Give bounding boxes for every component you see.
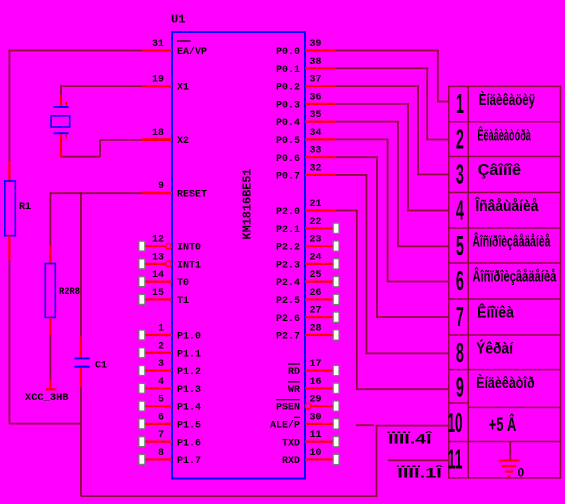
- pin 12 INT0 (left): [139, 235, 201, 254]
- svg-text:Èíäèêàòîð: Èíäèêàòîð: [476, 373, 535, 392]
- svg-text:38: 38: [310, 57, 322, 68]
- svg-text:P2.1: P2.1: [276, 225, 300, 236]
- pin 29 PSEN (right): [276, 395, 339, 414]
- svg-text:35: 35: [310, 110, 322, 121]
- table row 6 label text: [472, 267, 556, 286]
- svg-text:9: 9: [158, 181, 164, 192]
- resistor R1: [5, 181, 16, 236]
- wire into table row 11 (ground net): [388, 459, 449, 461]
- table row 2 number: [456, 124, 464, 155]
- label R2R8: [59, 287, 80, 298]
- pin 26 P2.5 (right): [276, 288, 339, 307]
- svg-text:21: 21: [310, 199, 322, 210]
- svg-text:EA/VP: EA/VP: [177, 46, 207, 58]
- svg-text:9: 9: [456, 371, 464, 402]
- svg-text:ALE/P: ALE/P: [270, 419, 300, 431]
- svg-text:25: 25: [310, 270, 322, 281]
- pin 3 P1.2 (left): [139, 359, 201, 378]
- svg-text:11: 11: [448, 443, 463, 474]
- pin 2 P1.1 (left): [139, 341, 201, 360]
- svg-text:8: 8: [456, 337, 464, 368]
- svg-text:P2.7: P2.7: [276, 332, 300, 343]
- wire R2 rail below R2 to VCC bar: [49, 317, 51, 388]
- svg-text:5: 5: [158, 395, 164, 406]
- table row 11 number: [448, 443, 463, 474]
- svg-text:10: 10: [448, 407, 463, 438]
- pin 39 P0.0 (right): [276, 39, 336, 58]
- wire left rail above R1: [8, 50, 10, 181]
- wire R2 rail above R2: [49, 192, 51, 263]
- pin 36 P0.3 (right): [276, 92, 336, 111]
- svg-text:Âîñïðîèçâåäåíèå: Âîñïðîèçâåäåíèå: [472, 232, 550, 251]
- capacitor C1: [74, 357, 89, 367]
- table row 1 number: [456, 88, 464, 119]
- svg-text:11: 11: [310, 430, 322, 441]
- IC U1 reference designator label: [171, 13, 185, 27]
- pin 11 TXD (right): [282, 430, 339, 449]
- table row 8 label text: [476, 339, 513, 358]
- wire P0.5 to table row 6: [336, 139, 449, 281]
- ground symbol in table row 11: [499, 442, 525, 480]
- pin 25 P2.4 (right): [276, 270, 339, 289]
- svg-text:TXD: TXD: [282, 438, 300, 449]
- table row 8 number: [456, 337, 464, 368]
- svg-text:Êëàâèàòóðà: Êëàâèàòóðà: [477, 125, 531, 144]
- svg-text:1: 1: [158, 323, 164, 334]
- connector table frame: [449, 86, 561, 478]
- pin 18 X2 (left): [142, 128, 189, 147]
- svg-text:X1: X1: [177, 83, 189, 94]
- svg-text:P0.2: P0.2: [276, 83, 300, 94]
- wire X2 pin to crystal bottom: [61, 134, 172, 157]
- table row 9 number: [456, 371, 464, 402]
- svg-text:RXD: RXD: [282, 456, 300, 467]
- svg-text:4: 4: [456, 194, 464, 225]
- pin 15 T1 (left): [139, 288, 189, 307]
- wire EA/VP pin 31 to left rail: [9, 50, 142, 52]
- pin 4 P1.3 (left): [139, 377, 201, 396]
- svg-text:P2.4: P2.4: [276, 278, 300, 289]
- svg-text:4: 4: [158, 377, 164, 388]
- wire P0.7 to table row 8: [336, 175, 449, 353]
- wire X1 pin to crystal: [61, 85, 172, 106]
- IC U1 part number KM1816BE51 (vertical): [242, 168, 255, 239]
- pin 14 T0 (left): [139, 270, 189, 289]
- pin 5 P1.4 (left): [139, 395, 201, 414]
- svg-text:15: 15: [152, 288, 164, 299]
- wire stub near P2 bus at row 10 level: [356, 424, 374, 426]
- wire left rail below R1 down and right to C1 rail: [9, 236, 81, 424]
- pin 16 WR (right): [288, 377, 339, 396]
- table row 4 number: [456, 194, 464, 225]
- svg-text:P2.5: P2.5: [276, 296, 300, 307]
- svg-text:Èíäèêàöèÿ: Èíäèêàöèÿ: [479, 90, 535, 109]
- svg-text:T1: T1: [177, 296, 189, 307]
- svg-text:P1.1: P1.1: [177, 349, 201, 360]
- table row 3 number: [456, 158, 464, 189]
- svg-text:Êíîïêà: Êíîïêà: [477, 303, 514, 322]
- svg-text:37: 37: [310, 75, 322, 86]
- svg-text:P2.3: P2.3: [276, 260, 300, 271]
- table row 2 label text: [477, 125, 531, 144]
- label R1: [19, 202, 31, 213]
- table row 9 label text: [476, 373, 535, 392]
- net label for ground wire: [396, 464, 444, 481]
- IC U1 body (KM1816BE51 microcontroller): [172, 32, 305, 479]
- resistor R2: [45, 264, 55, 318]
- svg-text:T0: T0: [177, 278, 189, 289]
- pin 8 P1.7 (left): [139, 448, 201, 467]
- svg-text:6: 6: [158, 412, 164, 423]
- svg-text:29: 29: [310, 395, 322, 406]
- power symbol VCC bar: [45, 388, 56, 390]
- table row 7 number: [456, 301, 464, 332]
- pin 22 P2.1 (right): [276, 217, 339, 236]
- svg-text:13: 13: [152, 252, 164, 263]
- pin 21 P2.0 (right): [276, 199, 336, 218]
- net label XCC_3HB: [25, 393, 69, 404]
- svg-text:P1.2: P1.2: [177, 367, 201, 378]
- wire P0.4 to table row 5: [336, 122, 449, 247]
- pin 35 P0.4 (right): [276, 110, 336, 129]
- svg-text:Îñâåùåíèå: Îñâåùåíèå: [475, 196, 539, 215]
- svg-text:Âîñïðîèçâåäåíèå: Âîñïðîèçâåäåíèå: [472, 267, 556, 286]
- svg-text:17: 17: [310, 359, 322, 370]
- svg-text:1: 1: [456, 88, 464, 119]
- svg-text:P0.0: P0.0: [276, 47, 300, 58]
- svg-text:10: 10: [310, 448, 322, 459]
- table row 5 label text: [472, 232, 550, 251]
- svg-text:C1: C1: [95, 361, 107, 372]
- svg-text:P2.0: P2.0: [276, 207, 300, 218]
- wire C1 rail below C1 to bottom loop: [80, 368, 82, 496]
- table row 6 number: [456, 265, 464, 296]
- svg-text:12: 12: [152, 235, 164, 246]
- svg-text:P0.5: P0.5: [276, 136, 300, 147]
- svg-text:P1.7: P1.7: [177, 456, 201, 467]
- svg-text:32: 32: [310, 163, 322, 174]
- svg-text:PSEN: PSEN: [276, 403, 300, 414]
- svg-text:26: 26: [310, 288, 322, 299]
- svg-text:7: 7: [456, 301, 464, 332]
- svg-text:36: 36: [310, 92, 322, 103]
- svg-text:X2: X2: [177, 136, 189, 147]
- svg-text:P0.4: P0.4: [276, 118, 300, 129]
- svg-text:24: 24: [310, 252, 322, 263]
- svg-text:5: 5: [456, 230, 464, 261]
- svg-text:18: 18: [152, 128, 164, 139]
- svg-text:INT1: INT1: [177, 260, 201, 271]
- table row 3 label text: [478, 162, 522, 179]
- svg-text:16: 16: [310, 377, 322, 388]
- wire P0.0 to table row 1: [336, 51, 449, 102]
- svg-text:14: 14: [152, 270, 164, 281]
- svg-text:22: 22: [310, 217, 322, 228]
- svg-text:P1.5: P1.5: [177, 420, 201, 431]
- pin 6 P1.5 (left): [139, 412, 201, 431]
- wire P0.6 to table row 7: [336, 157, 449, 317]
- svg-text:34: 34: [310, 128, 322, 139]
- pin 31 EA/VP (left): [142, 39, 207, 58]
- svg-text:ÏÏÏÏ.1Î: ÏÏÏÏ.1Î: [396, 464, 444, 481]
- svg-text:P1.6: P1.6: [177, 438, 201, 449]
- wire C1 rail from RESET net down to C1: [80, 192, 82, 357]
- wire bottom loop to table row 10: [81, 426, 449, 497]
- pin 24 P2.3 (right): [276, 252, 339, 271]
- pin 17 RD (right): [288, 359, 339, 378]
- pin 33 P0.6 (right): [276, 146, 336, 165]
- svg-text:31: 31: [152, 39, 164, 50]
- svg-text:0: 0: [518, 465, 525, 479]
- wire P2.0 to table row 9: [336, 211, 449, 390]
- svg-text:28: 28: [310, 323, 322, 334]
- svg-text:3: 3: [158, 359, 164, 370]
- pin 23 P2.2 (right): [276, 235, 339, 254]
- net label for +5V wire: [387, 430, 433, 447]
- pin 27 P2.6 (right): [276, 306, 339, 325]
- wire RESET pin 9 to R2 rail: [50, 192, 172, 194]
- svg-text:R1: R1: [19, 202, 31, 213]
- svg-text:KM1816BE51: KM1816BE51: [242, 168, 255, 239]
- svg-text:P0.3: P0.3: [276, 100, 300, 111]
- svg-text:P2.6: P2.6: [276, 314, 300, 325]
- crystal Y1: [51, 102, 70, 139]
- label C1: [95, 361, 107, 372]
- svg-text:P0.7: P0.7: [276, 172, 300, 183]
- table row 10 label text: [489, 414, 517, 436]
- pin 7 P1.6 (left): [139, 430, 201, 449]
- table row 7 label text: [477, 303, 514, 322]
- pin 37 P0.2 (right): [276, 75, 336, 94]
- svg-text:ÏÏÏÏ.4Î: ÏÏÏÏ.4Î: [387, 430, 433, 447]
- svg-text:P2.2: P2.2: [276, 243, 300, 254]
- svg-text:RESET: RESET: [177, 189, 207, 200]
- svg-text:U1: U1: [171, 13, 185, 27]
- svg-text:19: 19: [152, 75, 164, 86]
- svg-text:WR: WR: [288, 385, 300, 396]
- svg-text:3: 3: [456, 158, 464, 189]
- svg-text:P1.4: P1.4: [177, 403, 201, 414]
- pin 19 X1 (left): [142, 75, 189, 94]
- svg-text:R2R8: R2R8: [59, 287, 80, 298]
- svg-text:P0.1: P0.1: [276, 65, 300, 76]
- pin 38 P0.1 (right): [276, 57, 336, 76]
- svg-text:Ýêðàí: Ýêðàí: [476, 339, 513, 358]
- pin 34 P0.5 (right): [276, 128, 336, 147]
- svg-text:P1.3: P1.3: [177, 385, 201, 396]
- svg-text:7: 7: [158, 430, 164, 441]
- svg-text:Çâîíîê: Çâîíîê: [478, 162, 522, 179]
- pin 28 P2.7 (right): [276, 323, 339, 342]
- pin 32 P0.7 (right): [276, 163, 336, 182]
- svg-text:23: 23: [310, 235, 322, 246]
- svg-text:27: 27: [310, 306, 322, 317]
- svg-text:30: 30: [310, 412, 322, 423]
- svg-text:8: 8: [158, 448, 164, 459]
- pin 9 RESET (left): [142, 181, 207, 200]
- pin 13 INT1 (left): [139, 252, 201, 271]
- pin 10 RXD (right): [282, 448, 339, 467]
- pin 30 ALE/P (right): [270, 412, 339, 431]
- table row 4 label text: [475, 196, 539, 215]
- wire P0.3 to table row 4: [336, 104, 449, 211]
- svg-text:P0.6: P0.6: [276, 154, 300, 165]
- svg-text:INT0: INT0: [177, 243, 201, 254]
- svg-text:RD: RD: [288, 367, 300, 378]
- wire P0.2 to table row 3: [336, 86, 449, 174]
- svg-text:2: 2: [456, 124, 464, 155]
- table row 1 label text: [479, 90, 535, 109]
- pin 1 P1.0 (left): [139, 323, 201, 342]
- table row 10 number: [448, 407, 463, 438]
- table row 5 number: [456, 230, 464, 261]
- svg-text:6: 6: [456, 265, 464, 296]
- svg-text:XCC_3HB: XCC_3HB: [25, 393, 69, 404]
- wire P0.1 to table row 2: [336, 68, 449, 139]
- svg-text:39: 39: [310, 39, 322, 50]
- svg-text:2: 2: [158, 341, 164, 352]
- svg-text:+5 Â: +5 Â: [489, 414, 517, 436]
- svg-text:P1.0: P1.0: [177, 332, 201, 343]
- svg-text:33: 33: [310, 146, 322, 157]
